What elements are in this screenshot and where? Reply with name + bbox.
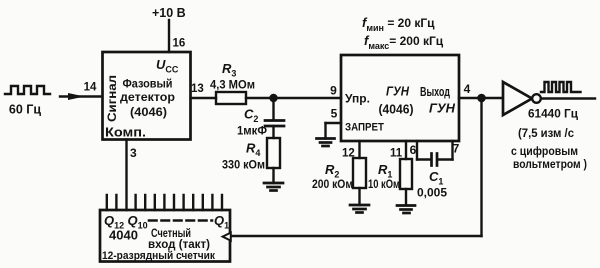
svg-text:6: 6: [410, 143, 417, 157]
ground (below R4): [264, 182, 283, 185]
wire R1 to ground: [405, 189, 407, 205]
svg-text:с цифровым: с цифровым: [511, 144, 578, 158]
svg-text:1мкФ: 1мкФ: [237, 126, 267, 138]
output waveform: [541, 82, 581, 92]
wire pin 12: [358, 141, 360, 158]
svg-text:4: 4: [464, 82, 471, 96]
wire junction down to C2: [272, 98, 274, 120]
counter output ticks: [107, 195, 222, 210]
svg-text:Фазовый: Фазовый: [123, 77, 173, 91]
wire R3 to VCO pin 9: [246, 97, 341, 99]
VCO U2 (4046) block: [341, 55, 459, 141]
wire inverter output: [541, 97, 595, 99]
svg-text:3: 3: [130, 146, 137, 160]
svg-text:10 кОм: 10 кОм: [368, 179, 400, 191]
svg-text:+10 В: +10 В: [152, 6, 186, 20]
capacitor C1: [430, 154, 433, 166]
clock input triangle: [223, 233, 231, 241]
wire pin 13 to R3: [191, 97, 217, 99]
wire C1 to pin 7: [438, 158, 453, 160]
phase detector U1 (4046) block: [103, 52, 191, 140]
ground (pin 5): [317, 137, 335, 140]
resistor R4: [267, 138, 280, 168]
svg-text:ГУН: ГУН: [386, 84, 410, 99]
wire pin 11: [405, 141, 407, 159]
svg-text:Комп.: Комп.: [105, 126, 146, 140]
svg-text:200 кОм: 200 кОм: [312, 179, 353, 191]
svg-text:16: 16: [173, 38, 186, 50]
wire pin 4 to inverter: [459, 97, 503, 99]
svg-text:61440 Гц: 61440 Гц: [528, 107, 579, 121]
svg-text:ЗАПРЕТ: ЗАПРЕТ: [345, 122, 384, 134]
capacitor C2: [265, 119, 284, 122]
svg-text:330 кОм: 330 кОм: [222, 160, 265, 172]
svg-text:0,005: 0,005: [417, 188, 448, 200]
node output junction: [477, 94, 486, 103]
svg-text:60 Гц: 60 Гц: [9, 103, 41, 117]
wire pin 6: [416, 141, 418, 160]
svg-text:Упр.: Упр.: [345, 92, 370, 106]
svg-text:4,3 МОм: 4,3 МОм: [210, 80, 255, 92]
svg-text:Выход: Выход: [420, 85, 450, 99]
svg-text:детектор: детектор: [120, 90, 175, 104]
wire R2 to ground: [358, 188, 360, 205]
pin 5 stub: [326, 122, 342, 124]
wire R4 to ground: [272, 168, 274, 183]
input signal waveform: [5, 86, 50, 94]
inverter (buffer): [503, 82, 532, 115]
svg-text:7: 7: [453, 142, 460, 156]
feedback wire output to counter clock: [480, 98, 482, 236]
ground (below R2): [350, 204, 369, 207]
svg-text:ГУН: ГУН: [429, 101, 456, 116]
resistor R3: [216, 92, 246, 104]
counter U3 (4040) block: [100, 210, 230, 262]
svg-text:Сигнал: Сигнал: [105, 75, 119, 122]
ground (below R1): [397, 204, 415, 207]
resistor R2: [353, 158, 366, 188]
svg-text:11: 11: [390, 148, 403, 160]
dashed line Q10..Q1: [149, 219, 212, 222]
svg-text:12-разрядный счетчик: 12-разрядный счетчик: [102, 250, 215, 262]
svg-text:(7,5 изм /с: (7,5 изм /с: [518, 126, 574, 140]
svg-text:4040: 4040: [109, 228, 138, 243]
wire pin 3 (phase comparator input from Q10): [125, 140, 127, 211]
svg-text:5: 5: [331, 107, 338, 121]
svg-text:(4046): (4046): [130, 105, 167, 119]
svg-text:13: 13: [191, 83, 204, 95]
node junction R3/C2: [269, 94, 277, 102]
wire pin 16 to +10V: [168, 20, 170, 52]
wire input arrow to pin 14: [60, 95, 102, 97]
resistor R1: [400, 159, 412, 189]
svg-text:(4046): (4046): [379, 102, 414, 117]
wire C2 to R4: [272, 126, 274, 138]
svg-text:вольтметром ): вольтметром ): [513, 157, 587, 171]
svg-text:14: 14: [84, 82, 97, 94]
svg-text:9: 9: [330, 84, 337, 98]
